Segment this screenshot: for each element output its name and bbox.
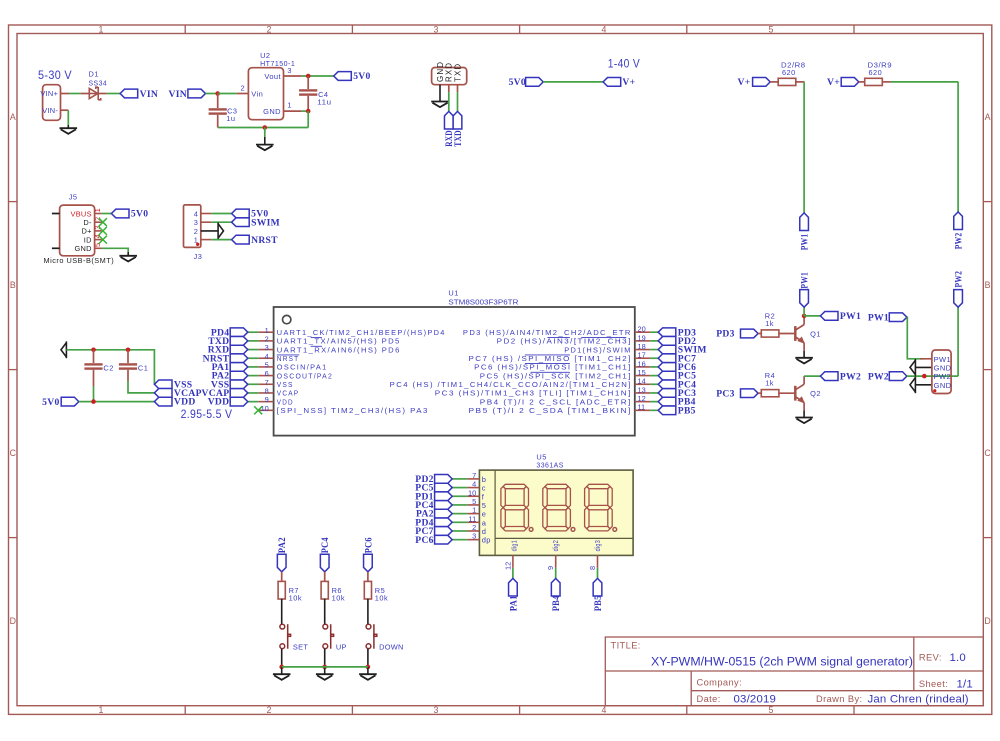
svg-text:PC4 (HS) /TIM1_CH4/CLK_CCO/AIN: PC4 (HS) /TIM1_CH4/CLK_CCO/AIN2/[TIM1_CH…: [390, 380, 632, 389]
U1 pin 4 lead: [258, 357, 273, 359]
U1 pin 19 lead: [635, 340, 650, 342]
svg-text:D1: D1: [89, 70, 99, 79]
svg-text:XY-PWM/HW-0515 (2ch PWM signal: XY-PWM/HW-0515 (2ch PWM signal generator…: [651, 655, 913, 669]
port PW1 (down flag): [800, 213, 809, 231]
port V+ (input): [603, 78, 621, 87]
wire U1 pin 12: [650, 401, 658, 403]
node GND/C4 junction: [306, 109, 311, 114]
wire U1 pin 16: [650, 366, 658, 368]
wire U1 pin 17: [650, 357, 658, 359]
wire R9 down to PW2: [957, 82, 959, 212]
svg-text:3: 3: [434, 24, 439, 34]
pin VIN+ lead: [61, 93, 70, 95]
port TXD: [453, 111, 462, 129]
wire R5 to switch: [367, 599, 369, 624]
node gnd bus junction: [263, 125, 268, 130]
U1 pin 13 lead: [635, 392, 650, 394]
svg-text:c: c: [482, 484, 486, 493]
U5 segment pin 2 lead: [467, 530, 479, 532]
wire U1 pin 13: [650, 392, 658, 394]
connector output header body: [932, 350, 951, 394]
svg-text:4: 4: [265, 352, 269, 361]
wire button gnd rail: [282, 666, 368, 668]
diode D1 cathode lead: [98, 93, 107, 95]
wire U5 PB5: [597, 568, 599, 579]
wire R8 down to PW1: [803, 82, 805, 213]
svg-text:Jan Chren (rindeal): Jan Chren (rindeal): [868, 694, 969, 706]
svg-text:PC6: PC6: [415, 535, 434, 546]
svg-text:[SPI_NSS] TIM2_CH3/(HS) PA3: [SPI_NSS] TIM2_CH3/(HS) PA3: [277, 406, 429, 415]
U1 pin 2 lead: [258, 340, 273, 342]
wire 5V0 to VDD port: [79, 401, 155, 403]
wire switch to gnd rail: [324, 649, 326, 667]
wire U1 pin 8: [248, 392, 258, 394]
port PD3 at U1: [658, 328, 676, 337]
U5 segment pin 4 lead: [467, 487, 479, 489]
wire PW2 flag down: [957, 307, 959, 376]
ground stem U2: [264, 128, 266, 138]
port PB4: [551, 578, 560, 596]
wire to U5 pin 1: [452, 513, 467, 515]
wire to PW column: [891, 81, 958, 83]
ground sideways left: [61, 341, 66, 358]
wire U1 pin 9: [248, 401, 258, 403]
port PD2 at U1: [658, 337, 676, 346]
wire GND pin to node: [302, 110, 309, 112]
svg-text:5V0: 5V0: [353, 71, 370, 82]
U1 pin 9 lead: [258, 401, 273, 403]
wire U1 pin 14: [650, 383, 658, 385]
ground sideways header pin2: [910, 359, 915, 376]
svg-text:5V0: 5V0: [131, 209, 148, 220]
svg-text:VSS: VSS: [277, 380, 294, 389]
wire to U5 pin 7: [452, 478, 467, 480]
port VSS: [154, 380, 172, 389]
svg-text:D: D: [10, 616, 16, 626]
U5 seven segment digit 2: [543, 484, 571, 531]
resistor R6 top lead: [324, 572, 326, 582]
svg-text:5: 5: [769, 24, 774, 34]
svg-text:7: 7: [472, 471, 476, 480]
svg-text:PD3: PD3: [716, 329, 735, 340]
U5 segment pin 5 lead: [467, 504, 479, 506]
svg-text:19: 19: [638, 333, 646, 342]
switch UP: [323, 624, 334, 649]
svg-text:12: 12: [503, 562, 512, 570]
J3 pin1 marker dot: [196, 243, 199, 246]
port PB4 at U1: [658, 397, 676, 406]
svg-text:2: 2: [265, 334, 269, 343]
ground U2: [256, 145, 274, 151]
ground stem UP: [324, 667, 326, 674]
resistor R6 10k: [321, 581, 328, 599]
wire U1 pin 20: [650, 331, 658, 333]
wire U1 pin 7: [248, 383, 258, 385]
svg-text:PC5 (HS)/SPI_SCK [TIM2_CH1]: PC5 (HS)/SPI_SCK [TIM2_CH1]: [480, 371, 632, 380]
svg-text:7: 7: [265, 378, 269, 387]
port PC3 at U1: [658, 389, 676, 398]
capacitor C3: [209, 108, 227, 115]
svg-text:Drawn By:: Drawn By:: [816, 694, 862, 704]
svg-text:b: b: [482, 475, 487, 484]
svg-text:UART1_CK/TIM2_CH1/BEEP/(HS)PD4: UART1_CK/TIM2_CH1/BEEP/(HS)PD4: [277, 328, 446, 337]
svg-text:GND: GND: [436, 61, 445, 82]
connector J5 Micro USB: [60, 205, 95, 256]
port PB5: [593, 578, 602, 596]
wire C2 to VDD bus: [93, 386, 95, 402]
svg-text:VIN: VIN: [169, 89, 188, 100]
svg-text:C: C: [984, 448, 991, 458]
svg-text:1: 1: [287, 101, 291, 110]
svg-text:UP: UP: [336, 642, 347, 651]
ground serial header: [431, 102, 449, 108]
svg-text:20: 20: [638, 325, 646, 334]
switch DOWN: [366, 624, 377, 649]
capacitor C1 top lead: [127, 350, 129, 363]
svg-text:UART1_TX/AIN5/(HS) PD5: UART1_TX/AIN5/(HS) PD5: [277, 337, 401, 346]
resistor R7 10k: [278, 581, 285, 599]
title block border: [605, 637, 983, 706]
header gnd pin leads: [915, 367, 932, 384]
svg-text:3: 3: [265, 343, 269, 352]
svg-text:C: C: [10, 448, 17, 458]
wire Vout to 5V0 port: [302, 75, 334, 77]
svg-text:5: 5: [93, 243, 102, 247]
U5 segment pin 1 lead: [467, 513, 479, 515]
svg-text:PW2: PW2: [954, 271, 965, 288]
svg-text:GND: GND: [934, 364, 952, 373]
svg-text:4: 4: [602, 705, 607, 715]
svg-text:VIN: VIN: [140, 89, 159, 100]
ground stem VIN-: [67, 125, 69, 128]
U5 segment pin 10 lead: [467, 495, 479, 497]
capacitor C1 bottom lead: [127, 370, 129, 381]
svg-text:11u: 11u: [317, 97, 331, 106]
ground DOWN: [359, 674, 377, 680]
ground J5: [119, 256, 137, 262]
port 5V0 at J3: [232, 209, 250, 218]
svg-text:VIN+: VIN+: [40, 89, 58, 98]
svg-text:ID: ID: [84, 235, 92, 244]
svg-text:PW1: PW1: [840, 311, 861, 322]
svg-text:V+: V+: [827, 77, 840, 88]
U5 seven segment digit 3: [585, 484, 613, 531]
svg-text:PW1: PW1: [800, 234, 811, 251]
capacitor C2 bottom lead: [93, 370, 95, 386]
wire U1 pin 2: [248, 340, 258, 342]
svg-text:PW2: PW2: [954, 233, 965, 250]
svg-text:2: 2: [241, 83, 245, 92]
IC U1 STM8S003F3P6TR body: [274, 307, 635, 436]
U1 pin 1 lead: [258, 331, 273, 333]
wire top gnd bus: [66, 350, 154, 385]
svg-text:1: 1: [99, 24, 104, 34]
transistor Q2: [795, 384, 804, 402]
Q1 emitter lead: [803, 343, 805, 351]
svg-text:8: 8: [265, 387, 269, 396]
svg-text:620: 620: [782, 68, 796, 77]
node button SET: [279, 665, 284, 670]
svg-text:VIN-: VIN-: [42, 106, 58, 115]
wire J3 pin4: [211, 213, 231, 215]
svg-text:10k: 10k: [289, 594, 302, 603]
svg-text:5: 5: [482, 501, 487, 510]
ground stem DOWN: [367, 667, 369, 674]
svg-text:11: 11: [469, 514, 477, 523]
node C2 top: [91, 348, 96, 353]
port PW2 (down flag): [954, 212, 963, 230]
U5 internal dividers: [494, 470, 496, 555]
wire U1 pin 18: [650, 349, 658, 351]
ground SET: [273, 674, 291, 680]
U1 pin 6 lead: [258, 375, 273, 377]
svg-text:3: 3: [472, 532, 476, 541]
svg-text:D-: D-: [83, 218, 92, 227]
svg-text:Date:: Date:: [697, 694, 721, 704]
NC cross ID: [99, 236, 107, 244]
U5 segment pin 11 lead: [467, 521, 479, 523]
port SWIM at U1: [658, 345, 676, 354]
Q1 collector lead: [803, 316, 805, 325]
svg-text:5: 5: [472, 497, 476, 506]
wire U1 pin 3: [248, 349, 258, 351]
svg-text:2: 2: [472, 523, 476, 532]
port VDD: [154, 397, 172, 406]
svg-text:9: 9: [265, 395, 269, 404]
U5 seven segment digit 1: [501, 484, 529, 531]
wire C1 to VCAP: [128, 381, 154, 393]
node button UP: [322, 665, 327, 670]
capacitor C2 top lead: [93, 350, 95, 363]
node button DOWN: [366, 665, 371, 670]
U1 pin 8 lead: [258, 392, 273, 394]
pin 3 lead U2 Vout: [284, 75, 302, 77]
U5 digit pin 12 lead: [512, 555, 514, 568]
svg-text:5-30 V: 5-30 V: [38, 68, 72, 82]
resistor D3/R9 right lead: [882, 81, 891, 83]
svg-text:OSCIN/PA1: OSCIN/PA1: [277, 363, 328, 372]
svg-text:UART1_RX/AIN6/(HS) PD6: UART1_RX/AIN6/(HS) PD6: [277, 345, 401, 354]
wire RXD: [448, 92, 450, 111]
svg-text:TITLE:: TITLE:: [611, 641, 641, 651]
svg-text:VCAP: VCAP: [277, 389, 300, 398]
ground VIN-: [60, 128, 78, 134]
switch SET: [280, 624, 291, 649]
svg-text:TXD: TXD: [453, 63, 462, 82]
svg-text:1: 1: [99, 705, 104, 715]
svg-text:C1: C1: [138, 363, 148, 372]
pin 1 lead U2 GND: [284, 110, 302, 112]
svg-text:dig3: dig3: [593, 540, 602, 552]
transistor Q1: [795, 325, 804, 343]
svg-text:PB4: PB4: [551, 595, 562, 611]
svg-text:1: 1: [265, 326, 269, 335]
header pin1 lead: [920, 358, 932, 360]
svg-text:PW2: PW2: [934, 372, 951, 381]
svg-text:2: 2: [267, 24, 272, 34]
svg-text:PD3 (HS)/AIN4/TIM2_CH2/ADC_ETR: PD3 (HS)/AIN4/TIM2_CH2/ADC_ETR: [463, 328, 632, 337]
NC cross D+: [99, 227, 107, 235]
resistor R5 top lead: [367, 572, 369, 582]
svg-text:12: 12: [638, 394, 646, 403]
port PC4 at U1: [658, 380, 676, 389]
svg-text:17: 17: [638, 351, 646, 360]
svg-text:PA1: PA1: [508, 595, 519, 611]
svg-text:GND: GND: [263, 107, 281, 116]
svg-text:16: 16: [638, 359, 646, 368]
resistor R5 10k: [364, 581, 371, 599]
node C1 top: [126, 348, 131, 353]
svg-text:Q2: Q2: [810, 389, 821, 398]
pin VIN- lead: [61, 109, 69, 111]
capacitor C3 top lead: [217, 94, 219, 109]
wire U1 pin 6: [248, 375, 258, 377]
wire R7 to switch: [281, 599, 283, 624]
resistor R2 1k: [761, 330, 779, 337]
svg-text:5V0: 5V0: [509, 77, 526, 88]
resistor D2/R8 620: [778, 78, 796, 85]
svg-text:1/1: 1/1: [957, 679, 973, 691]
node Q1 collector: [802, 314, 807, 319]
svg-text:1: 1: [93, 208, 102, 212]
wire 5V0 to V+: [543, 81, 603, 83]
connector VIN screw terminal: [43, 85, 61, 121]
port PC7 at U1: [658, 354, 676, 363]
ground UP: [316, 674, 334, 680]
svg-text:1u: 1u: [226, 114, 235, 123]
svg-text:10k: 10k: [375, 594, 388, 603]
svg-text:DOWN: DOWN: [379, 642, 404, 651]
serial GND pin wire: [439, 85, 441, 102]
resistor D3/R9 lead: [859, 81, 865, 83]
J3 pin leads: [201, 214, 212, 240]
svg-text:REV:: REV:: [919, 653, 942, 663]
port NRST: [232, 235, 250, 244]
svg-text:1.0: 1.0: [950, 652, 966, 664]
wire U1 pin 1: [248, 331, 258, 333]
U5 decimal point 2: [571, 528, 575, 532]
wire U1 pin 5: [248, 366, 258, 368]
wire PW1 to header pin1: [907, 317, 924, 359]
svg-text:PB5: PB5: [678, 405, 696, 416]
port PW2 (Q2 output): [820, 372, 838, 381]
ground Q1: [795, 358, 813, 364]
port RXD: [444, 111, 453, 129]
svg-text:PA2: PA2: [277, 537, 288, 553]
wire switch to gnd rail: [367, 649, 369, 667]
svg-text:VDD: VDD: [277, 397, 294, 406]
port PC5 at U1: [658, 371, 676, 380]
svg-text:18: 18: [638, 342, 646, 351]
svg-text:14: 14: [638, 377, 646, 386]
port PB5 at U1: [658, 406, 676, 415]
port SWIM: [232, 218, 250, 227]
node PW2 junction: [922, 374, 927, 379]
U1 pin 11 lead: [635, 409, 650, 411]
wire bottom gnd bus: [218, 127, 309, 129]
wire VIN+ to D1: [69, 93, 81, 95]
svg-text:dig1: dig1: [509, 540, 518, 552]
U1 pin1 circle marker: [283, 315, 291, 323]
capacitor C1: [119, 363, 137, 370]
svg-text:03/2019: 03/2019: [734, 694, 777, 706]
J3 pin2 gnd wire: [201, 230, 218, 232]
wire U5 PA1: [512, 568, 514, 579]
svg-text:PB5: PB5: [593, 595, 604, 611]
wire C4 node down: [307, 111, 309, 127]
ground Q2: [795, 418, 813, 424]
svg-text:J5: J5: [69, 193, 78, 202]
svg-text:5V0: 5V0: [42, 397, 59, 408]
svg-text:PW2: PW2: [868, 371, 889, 382]
svg-text:SS34: SS34: [89, 79, 108, 88]
U1 pin 20 lead: [635, 331, 650, 333]
svg-text:4: 4: [602, 24, 607, 34]
svg-text:2.95-5.5 V: 2.95-5.5 V: [181, 407, 233, 421]
wire to U5 pin 10: [452, 495, 467, 497]
wire J3 pin3: [211, 221, 231, 223]
wire VIN port to C3 node: [206, 93, 218, 95]
svg-text:PB5 (T)/I 2 C_SDA [TIM1_BKIN]: PB5 (T)/I 2 C_SDA [TIM1_BKIN]: [469, 406, 632, 415]
svg-text:Sheet:: Sheet:: [919, 679, 948, 689]
resistor R4 left lead: [758, 392, 761, 394]
U5 decimal point 3: [613, 528, 617, 532]
svg-text:A: A: [10, 112, 16, 122]
svg-text:PC3: PC3: [716, 388, 735, 399]
U5 segment pin 7 lead: [467, 478, 479, 480]
wire TXD: [457, 92, 459, 111]
svg-text:9: 9: [546, 566, 555, 570]
U5 decimal point 1: [529, 528, 533, 532]
svg-text:GND: GND: [934, 381, 952, 390]
svg-text:dig2: dig2: [551, 540, 560, 552]
svg-text:5: 5: [769, 705, 774, 715]
pin 2 lead U2 Vin: [237, 93, 249, 95]
U1 pin 5 lead: [258, 366, 273, 368]
resistor R2 right lead: [779, 333, 795, 335]
svg-text:1: 1: [472, 506, 476, 515]
wire U1 pin 4: [248, 357, 258, 359]
svg-text:NRST: NRST: [251, 235, 278, 246]
svg-text:Q1: Q1: [810, 330, 821, 339]
svg-text:11: 11: [638, 403, 646, 412]
U1 pin 17 lead: [635, 357, 650, 359]
NC cross pin 10: [254, 406, 262, 414]
svg-text:PC6 (HS)/SPI_MOSI [TIM1_CH1]: PC6 (HS)/SPI_MOSI [TIM1_CH1]: [474, 363, 632, 372]
svg-text:V+: V+: [622, 77, 635, 88]
wire J5 GND: [102, 248, 129, 252]
U1 pin 14 lead: [635, 383, 650, 385]
resistor D3/R9 620: [865, 78, 883, 85]
svg-text:PW1: PW1: [800, 272, 811, 289]
display U5 3361AS body: [479, 470, 633, 555]
diode D1 anode lead: [81, 93, 90, 95]
wire PW1 flag down to Q1: [803, 307, 805, 316]
svg-text:GND: GND: [74, 244, 91, 253]
svg-text:VBUS: VBUS: [70, 209, 91, 218]
svg-text:10: 10: [468, 488, 476, 497]
Q1 emitter wire: [803, 351, 805, 358]
svg-text:SWIM: SWIM: [251, 217, 280, 228]
svg-text:STM8S003F3P6TR: STM8S003F3P6TR: [448, 298, 519, 307]
connector J3: [184, 205, 201, 248]
capacitor C4: [299, 89, 317, 96]
U5 digit pin 9 lead: [555, 555, 557, 568]
svg-text:V+: V+: [738, 77, 751, 88]
svg-text:3: 3: [287, 66, 291, 75]
svg-text:PD2 (HS)/AIN3/[TIM2_CH3]: PD2 (HS)/AIN3/[TIM2_CH3]: [497, 337, 632, 346]
svg-text:Vin: Vin: [251, 89, 263, 98]
